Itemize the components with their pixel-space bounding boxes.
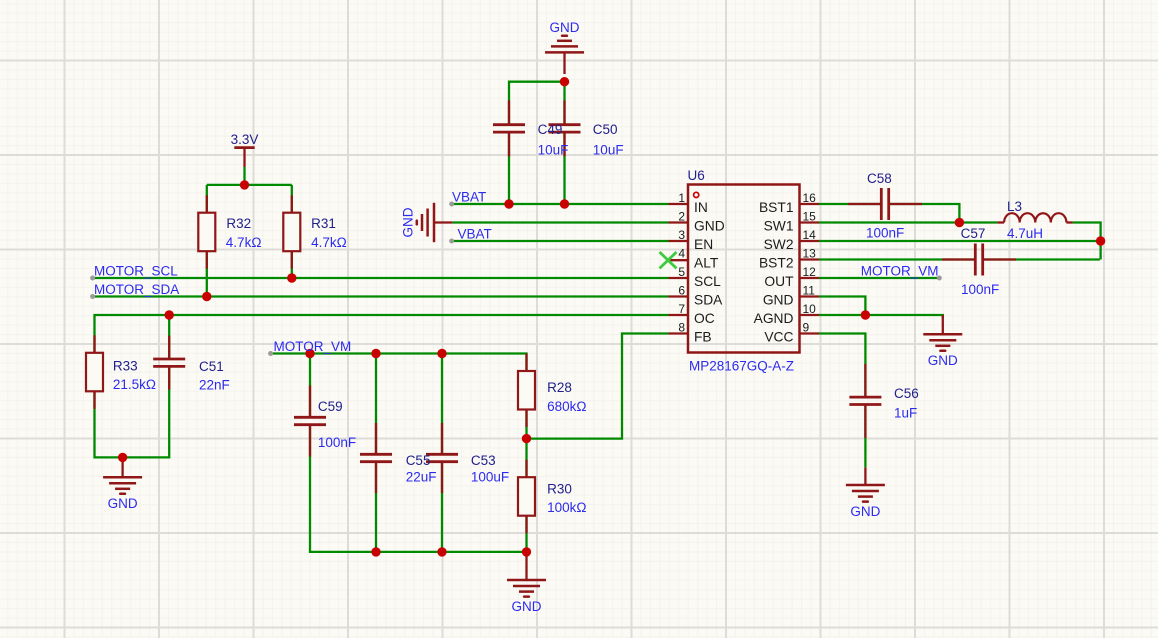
svg-text:MP28167GQ-A-Z: MP28167GQ-A-Z [689,359,794,374]
svg-text:C59: C59 [318,399,343,414]
svg-text:OC: OC [694,311,715,326]
svg-text:C55: C55 [406,453,431,468]
svg-text:EN: EN [694,237,713,252]
svg-text:12: 12 [803,265,817,279]
svg-text:100nF: 100nF [866,226,904,241]
svg-text:GND: GND [512,599,542,614]
svg-text:C51: C51 [199,359,224,374]
svg-text:C57: C57 [961,226,986,241]
svg-text:9: 9 [803,321,810,335]
svg-text:15: 15 [803,210,817,224]
svg-text:GND: GND [401,207,416,237]
svg-text:2: 2 [678,210,685,224]
svg-text:16: 16 [803,191,817,205]
svg-text:BST1: BST1 [759,200,794,215]
svg-text:C49: C49 [538,122,563,137]
svg-text:MOTOR_VM: MOTOR_VM [861,264,939,279]
svg-text:100nF: 100nF [318,435,356,450]
svg-text:6: 6 [678,284,685,298]
svg-text:R32: R32 [226,216,251,231]
svg-text:SW1: SW1 [764,219,794,234]
svg-text:8: 8 [678,321,685,335]
svg-text:100nF: 100nF [961,282,999,297]
svg-text:GND: GND [694,219,725,234]
svg-text:4.7uH: 4.7uH [1007,226,1043,241]
svg-text:MOTOR_SCL: MOTOR_SCL [94,264,178,279]
svg-text:GND: GND [928,353,958,368]
svg-text:7: 7 [678,302,685,316]
svg-text:MOTOR_SDA: MOTOR_SDA [94,282,179,297]
svg-text:AGND: AGND [754,311,794,326]
svg-text:IN: IN [694,200,708,215]
svg-text:SCL: SCL [694,274,721,289]
svg-text:3: 3 [678,228,685,242]
svg-text:R31: R31 [311,216,336,231]
svg-text:21.5kΩ: 21.5kΩ [113,377,156,392]
svg-text:10uF: 10uF [538,143,569,158]
svg-text:680kΩ: 680kΩ [547,399,586,414]
svg-text:GND: GND [108,496,138,511]
svg-text:ALT: ALT [694,256,719,271]
svg-text:R30: R30 [547,482,572,497]
svg-text:VBAT: VBAT [458,227,492,242]
svg-text:10uF: 10uF [593,143,624,158]
svg-text:FB: FB [694,330,712,345]
svg-text:13: 13 [803,247,817,261]
svg-text:R33: R33 [113,359,138,374]
svg-text:C53: C53 [471,453,496,468]
svg-text:4.7kΩ: 4.7kΩ [226,235,262,250]
svg-text:1: 1 [678,191,685,205]
svg-text:1uF: 1uF [894,406,917,421]
svg-text:BST2: BST2 [759,256,794,271]
svg-text:100kΩ: 100kΩ [547,500,586,515]
svg-text:GND: GND [763,293,794,308]
svg-text:3.3V: 3.3V [231,132,259,147]
svg-text:GND: GND [850,504,880,519]
svg-text:22uF: 22uF [406,470,437,485]
svg-text:VBAT: VBAT [452,190,486,205]
svg-text:R28: R28 [547,380,572,395]
svg-text:14: 14 [803,228,817,242]
svg-text:4.7kΩ: 4.7kΩ [311,235,347,250]
svg-text:VCC: VCC [764,330,793,345]
svg-text:C56: C56 [894,386,919,401]
svg-text:4: 4 [678,247,685,261]
svg-text:L3: L3 [1007,199,1022,214]
svg-text:C58: C58 [867,171,892,186]
svg-text:MOTOR_VM: MOTOR_VM [274,339,352,354]
svg-text:OUT: OUT [764,274,794,289]
svg-text:U6: U6 [688,168,705,183]
svg-text:5: 5 [678,265,685,279]
svg-text:10: 10 [803,302,817,316]
svg-text:C50: C50 [593,122,618,137]
svg-text:SW2: SW2 [764,237,794,252]
svg-text:100uF: 100uF [471,470,509,485]
svg-text:GND: GND [550,20,580,35]
svg-text:11: 11 [803,284,816,298]
svg-text:22nF: 22nF [199,378,230,393]
svg-text:SDA: SDA [694,293,723,308]
